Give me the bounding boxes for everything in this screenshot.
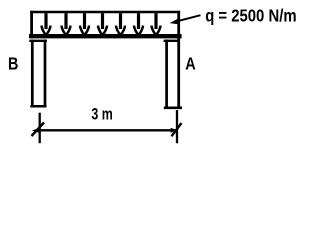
right dimension tick slash — [172, 123, 182, 136]
left leg top line — [29, 40, 47, 42]
load arrow 4 — [98, 13, 107, 35]
svg-text:B: B — [8, 54, 18, 74]
right leg bottom plate — [164, 107, 182, 110]
right extension line below leg — [176, 110, 178, 143]
right dimension arrowhead — [171, 128, 178, 133]
load arrow 3 — [80, 13, 89, 35]
svg-text:3 m: 3 m — [91, 105, 112, 124]
svg-text:q = 2500 N/m: q = 2500 N/m — [205, 6, 296, 26]
left extension line below leg — [39, 113, 41, 144]
left leg right side — [44, 40, 47, 108]
dimension line — [40, 129, 177, 131]
left dimension arrowhead — [32, 128, 40, 133]
load arrow 7 — [151, 13, 160, 35]
load arrow 6 — [134, 13, 143, 35]
load arrow 1 — [41, 13, 50, 35]
leader line to load label — [174, 15, 201, 22]
right leg top line — [164, 40, 179, 42]
load band left edge — [30, 11, 33, 38]
load arrow 5 — [116, 13, 125, 35]
left leg left side — [31, 40, 34, 108]
load band right edge merged with right leg right side — [177, 11, 180, 108]
left leg bottom plate — [30, 105, 46, 108]
load arrow 2 — [61, 13, 70, 35]
distributed load band top line — [30, 11, 180, 14]
left dimension tick slash — [32, 123, 45, 137]
svg-text:A: A — [185, 54, 196, 74]
beam (thick horizontal line) — [29, 34, 182, 38]
leader arrowhead — [171, 18, 179, 24]
right leg left side — [165, 40, 168, 108]
